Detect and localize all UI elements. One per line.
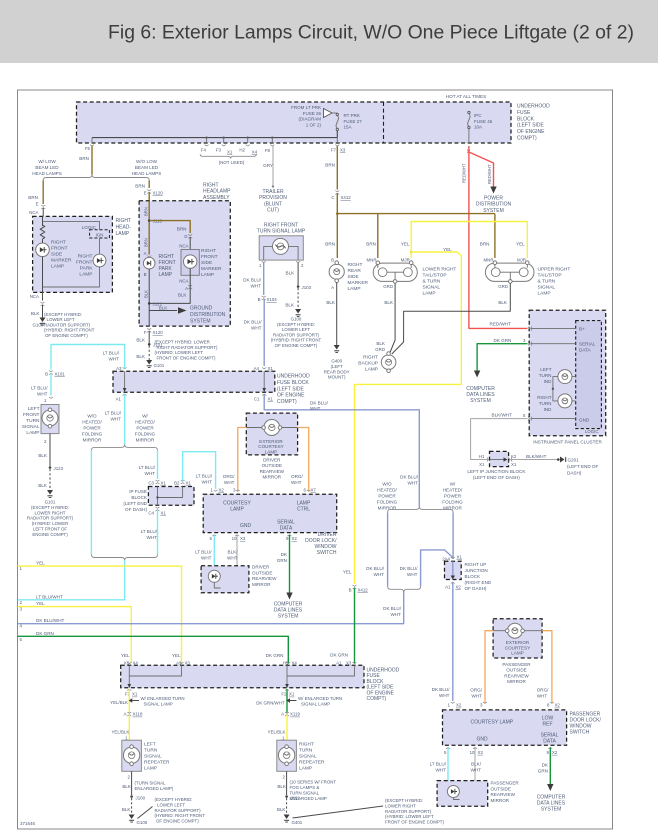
svg-text:DK GRN: DK GRN — [266, 653, 284, 658]
svg-text:DK GRN: DK GRN — [494, 338, 512, 343]
brace mirror option split (right) — [388, 507, 454, 513]
svg-text:F2: F2 — [281, 692, 287, 697]
svg-text:B: B — [331, 258, 334, 263]
svg-text:BRN: BRN — [79, 156, 89, 161]
brace mirror option merge (right) — [388, 586, 421, 592]
junction J115 — [148, 219, 151, 222]
wire side marker to J121 — [149, 268, 190, 303]
dashed wire to G101 — [148, 346, 150, 361]
left IP junction block — [490, 451, 509, 466]
internal ground bus — [42, 257, 44, 287]
pin A1 X3 — [353, 662, 357, 663]
connector J below headlamp — [41, 302, 45, 306]
pin H5 X4 — [286, 662, 290, 663]
side marker sub box — [181, 250, 199, 276]
svg-text:X1: X1 — [186, 481, 192, 486]
wire black pin 2 to J103 — [297, 263, 299, 285]
svg-text:X2: X2 — [292, 536, 298, 541]
svg-text:Fig 6: Exterior Lamps Circuit,: Fig 6: Exterior Lamps Circuit, W/O One P… — [108, 22, 634, 44]
IGN logic boxlet — [90, 230, 110, 238]
svg-text:G101: G101 — [154, 363, 165, 368]
right front park lamp (LED) — [93, 254, 106, 267]
svg-text:A: A — [281, 712, 284, 717]
svg-text:GRY: GRY — [263, 163, 273, 168]
svg-text:LOWREF: LOWREF — [542, 716, 554, 728]
wire slate junction block down to passenger courtesy — [452, 582, 454, 701]
indicator bracket wires — [553, 377, 576, 401]
svg-text:BRN: BRN — [325, 242, 335, 247]
connector courtesy pin 1 — [214, 490, 218, 491]
pin 3 passenger — [483, 702, 487, 703]
svg-text:X412: X412 — [358, 588, 369, 593]
svg-text:NCA: NCA — [29, 210, 38, 215]
svg-text:BRN: BRN — [135, 184, 145, 189]
wire park lamp down — [148, 269, 150, 326]
wire cyan X101 to lamp — [50, 373, 52, 395]
pin 5 passenger — [446, 747, 450, 748]
pin 10 X3 — [235, 535, 239, 536]
svg-text:YEL: YEL — [36, 601, 45, 606]
svg-text:B: B — [349, 588, 352, 593]
connector X101 — [49, 371, 53, 375]
pin K5 X4 — [127, 662, 131, 663]
trailer provision wire — [272, 146, 274, 186]
pin stubs bus1 — [92, 138, 337, 143]
svg-text:371646: 371646 — [20, 821, 36, 826]
connector X118 — [127, 712, 131, 716]
IPC logic sub box — [576, 321, 602, 429]
svg-text:X412: X412 — [341, 195, 352, 200]
wire black marker to G400 — [336, 283, 338, 346]
brace mirror option split (left) — [91, 445, 157, 451]
brace headlamp option split — [43, 174, 149, 180]
svg-text:X104: X104 — [267, 297, 278, 302]
svg-text:LAMPCTRL: LAMPCTRL — [297, 501, 311, 513]
ground G201 (sideways) — [557, 458, 560, 461]
wire gray pin10 to mirror — [221, 535, 238, 588]
svg-text:G201: G201 — [568, 458, 580, 463]
svg-text:A3: A3 — [116, 366, 122, 371]
svg-text:B+: B+ — [579, 326, 585, 331]
svg-text:X1: X1 — [511, 462, 517, 467]
svg-text:SIGNAL LAMP: SIGNAL LAMP — [301, 702, 330, 707]
internal brown wire — [148, 201, 150, 255]
pin A2 X3 — [180, 662, 184, 663]
svg-text:J100: J100 — [136, 796, 146, 801]
passenger outside rearview mirror box — [437, 781, 488, 807]
wire orange right — [298, 428, 309, 492]
dashed wire to G100 — [131, 798, 133, 815]
svg-text:X1: X1 — [132, 692, 138, 697]
svg-text:BLK: BLK — [136, 354, 146, 359]
pin connectors bus1 bottom — [90, 145, 339, 146]
wire triangle to fuse 27 — [332, 112, 337, 114]
right backup lamp — [381, 355, 396, 370]
svg-text:ORG/WHT: ORG/WHT — [470, 688, 482, 699]
svg-text:MJR: MJR — [517, 258, 526, 263]
svg-text:A1: A1 — [445, 585, 451, 590]
svg-text:BLK: BLK — [277, 807, 287, 812]
wire slate from pin 1 — [263, 263, 265, 295]
fuse RT PRK 27 — [336, 113, 338, 115]
svg-text:X3: X3 — [478, 750, 484, 755]
pin 9 X2 — [288, 535, 292, 536]
instrument panel cluster box — [529, 310, 606, 435]
svg-text:X3: X3 — [346, 660, 352, 665]
svg-text:LOGIC: LOGIC — [585, 429, 599, 434]
svg-text:YEL: YEL — [516, 242, 525, 247]
pin 1 — [262, 261, 266, 262]
svg-text:BLK: BLK — [384, 300, 394, 305]
svg-text:RED/WHT: RED/WHT — [487, 164, 492, 184]
svg-text:YEL: YEL — [36, 561, 45, 566]
pin B2 — [181, 480, 185, 484]
right headlamp (dashed box, w/ low beam) — [33, 216, 113, 292]
IP fuse block — [148, 487, 194, 506]
wire orange left (passenger) — [485, 631, 493, 703]
wire cyan A3 to X101 — [51, 345, 125, 370]
courtesy pin 6 — [307, 490, 311, 491]
svg-text:X118: X118 — [133, 712, 143, 717]
svg-text:DK BLU/WHT: DK BLU/WHT — [36, 618, 65, 623]
connector X104 — [262, 296, 266, 300]
driver outside rearview mirror box — [201, 566, 249, 593]
svg-text:H1: H1 — [479, 454, 485, 459]
svg-text:A: A — [185, 286, 188, 291]
wire yellow X118 to repeater — [128, 715, 130, 741]
wire black lamp3 GRD to backup lamp — [392, 283, 511, 354]
ground G100 (repeater) — [129, 815, 135, 820]
junction J123 — [49, 466, 52, 469]
svg-text:A: A — [144, 251, 147, 256]
side marker lamp LED — [184, 255, 197, 268]
wire green F2 to X119 — [286, 689, 288, 712]
upper right tail/stop lamp — [485, 263, 534, 281]
svg-text:BLK: BLK — [136, 338, 146, 343]
connector X120 bottom — [147, 328, 151, 332]
wire black lamp to J123 — [49, 434, 51, 466]
svg-text:F3: F3 — [216, 148, 222, 153]
enlarged turn arrow left — [129, 698, 133, 702]
svg-text:YEL: YEL — [343, 570, 352, 575]
wire internal B+ — [531, 327, 576, 329]
wire black to J100 — [131, 771, 133, 795]
svg-text:J123: J123 — [54, 466, 64, 471]
svg-text:G100: G100 — [33, 323, 44, 328]
yellow branch to rear lamps feed — [355, 252, 462, 584]
svg-text:NCA: NCA — [30, 294, 39, 299]
svg-text:C3: C3 — [148, 481, 154, 486]
svg-text:G101(EXCEPT HYBRID:LOWER RIGHT: G101(EXCEPT HYBRID:LOWER RIGHTRADIATOR S… — [27, 500, 74, 537]
mirror symbol — [208, 570, 220, 582]
wire slate C1 to mirror option split — [264, 394, 419, 506]
connector GND pin 5 — [528, 417, 532, 421]
border line 5 green — [18, 636, 289, 663]
wire brown F5 down — [91, 146, 93, 174]
svg-text:BRN: BRN — [480, 242, 490, 247]
junction yellow — [410, 251, 413, 254]
lower right tail/stop lamp — [373, 263, 417, 281]
svg-text:LT BLU/WHT: LT BLU/WHT — [36, 594, 63, 599]
underhood fuse block bus (top) — [77, 102, 512, 143]
svg-text:BLK: BLK — [38, 453, 48, 458]
svg-text:X4: X4 — [292, 660, 298, 665]
dashed wire to G101 — [49, 469, 51, 490]
wire cyan A1 down — [124, 394, 126, 444]
svg-text:GND: GND — [476, 737, 488, 743]
driver exterior courtesy lamp box — [246, 413, 297, 455]
svg-text:A2: A2 — [176, 660, 182, 665]
svg-text:X1: X1 — [161, 511, 167, 516]
connector H1 — [487, 458, 491, 462]
svg-text:NCA: NCA — [179, 244, 188, 249]
svg-text:(LEFT END OF DASH): (LEFT END OF DASH) — [473, 475, 520, 480]
svg-text:MJR: MJR — [401, 258, 410, 263]
brown branch to side marker — [149, 221, 190, 233]
connector X412 (B) lower — [353, 585, 357, 589]
svg-text:BLK: BLK — [286, 271, 296, 276]
svg-text:X3: X3 — [340, 148, 346, 153]
svg-text:BLK/WHT: BLK/WHT — [526, 454, 547, 459]
bus junction dots — [206, 137, 208, 139]
pin 5 — [212, 535, 216, 536]
right rear side marker lamp — [329, 264, 344, 279]
svg-text:X7: X7 — [311, 488, 317, 493]
internal logic branch wire — [43, 221, 100, 230]
svg-text:C: C — [331, 195, 334, 200]
border line 3 yellow — [18, 607, 132, 664]
wire brown F7 down — [336, 146, 338, 190]
svg-text:X1: X1 — [268, 366, 274, 371]
left turn indicator — [558, 370, 572, 384]
wire to J101 — [148, 331, 150, 343]
wire cyan w/ heated leg to C3 — [157, 450, 159, 479]
wire cyan w/o heated leg — [90, 450, 92, 554]
wire slate w/o heated leg (right) — [387, 512, 389, 586]
svg-text:B: B — [258, 297, 261, 302]
svg-text:YEL/BLK: YEL/BLK — [268, 730, 286, 735]
svg-text:X1: X1 — [161, 481, 167, 486]
brown tail bus — [337, 214, 495, 258]
svg-text:10: 10 — [470, 750, 475, 755]
svg-text:YEL/BLK: YEL/BLK — [111, 730, 129, 735]
right front park lamp (assembly) — [143, 257, 155, 269]
svg-text:G100(EXCEPT HYBRID:LOWER LEFTR: G100(EXCEPT HYBRID:LOWER LEFTRADIATOR SU… — [271, 317, 322, 349]
svg-text:BLK/WHT: BLK/WHT — [227, 550, 238, 561]
right up junction block — [451, 557, 455, 558]
wire green pin9 serial data — [289, 535, 291, 593]
svg-text:2A4: 2A4 — [442, 557, 450, 562]
pin C1 — [262, 394, 266, 395]
svg-text:X2: X2 — [219, 488, 225, 493]
svg-text:B: B — [144, 272, 147, 277]
svg-text:B2: B2 — [174, 481, 180, 486]
svg-text:BRN: BRN — [28, 195, 38, 200]
fuse block internal divider — [383, 102, 385, 143]
arrow power distribution — [490, 187, 496, 194]
svg-text:GRD: GRD — [375, 347, 385, 352]
connector X120 — [147, 190, 151, 194]
wire internal gnd — [531, 418, 576, 420]
wire yellow X119 to right repeater — [286, 715, 288, 741]
enlarged turn arrow right — [286, 698, 290, 702]
border line 4 slate — [18, 591, 404, 624]
svg-text:W/ ENLARGED TURN: W/ ENLARGED TURN — [141, 696, 185, 701]
leader line left note — [138, 807, 153, 819]
svg-text:GRD: GRD — [498, 284, 508, 289]
yellow tail bus — [411, 222, 527, 259]
svg-text:BLK: BLK — [159, 306, 169, 311]
svg-text:X4: X4 — [133, 660, 139, 665]
wire brown right branch — [148, 181, 150, 189]
wire gray BLK/WHT gnd — [471, 419, 528, 460]
ground G400 — [334, 345, 340, 350]
svg-text:GND: GND — [579, 417, 590, 422]
svg-text:BLK/WHT: BLK/WHT — [471, 762, 482, 773]
svg-text:YEL: YEL — [172, 653, 181, 658]
svg-text:DK GRN: DK GRN — [36, 631, 54, 636]
wire brown left branch — [42, 181, 44, 205]
junction brown tail bus — [336, 212, 339, 215]
svg-text:X4: X4 — [252, 150, 258, 155]
svg-text:GND: GND — [240, 523, 252, 529]
svg-text:RED/WHT: RED/WHT — [462, 163, 467, 183]
connector X119 — [285, 712, 289, 716]
connector B+ — [528, 326, 532, 330]
svg-text:X1: X1 — [227, 150, 233, 155]
svg-text:K5: K5 — [124, 660, 130, 665]
junction J103 — [297, 285, 300, 288]
dashed wire to G100 — [297, 288, 299, 309]
right front side marker lamp (LED) — [36, 243, 50, 257]
svg-text:X1: X1 — [457, 555, 463, 560]
pin 10 X3 passenger — [473, 747, 477, 748]
connector K2 — [509, 458, 513, 462]
svg-text:RIGHTHEAD-LAMP: RIGHTHEAD-LAMP — [116, 218, 132, 237]
pin F2 — [285, 689, 289, 690]
svg-text:F: F — [144, 330, 147, 335]
underhood fuse block bus 3 — [121, 665, 364, 688]
svg-text:BLK: BLK — [277, 784, 287, 789]
svg-text:BLK: BLK — [285, 303, 295, 308]
pin F1 — [127, 689, 131, 690]
pin A1 — [123, 394, 127, 395]
connector C3 — [156, 480, 160, 484]
svg-text:BRN: BRN — [177, 227, 187, 232]
wire black to J191 — [286, 771, 288, 795]
svg-text:YEL: YEL — [121, 653, 130, 658]
svg-text:YEL: YEL — [401, 242, 410, 247]
underhood fuse block bus 2 — [113, 371, 275, 392]
pin A4 — [262, 368, 266, 369]
svg-text:A4: A4 — [254, 366, 260, 371]
svg-text:INSTRUMENT PANEL CLUSTER: INSTRUMENT PANEL CLUSTER — [533, 440, 602, 445]
svg-text:LEFT IP JUNCTION BLOCK: LEFT IP JUNCTION BLOCK — [467, 469, 526, 474]
ground G101 — [146, 360, 152, 365]
svg-text:X2: X2 — [456, 585, 462, 590]
wire yellow F1 to X118 — [128, 689, 130, 712]
svg-text:YEL/BLK: YEL/BLK — [110, 700, 128, 705]
svg-text:BRN: BRN — [325, 163, 335, 168]
svg-text:BLK: BLK — [326, 300, 336, 305]
right headlamp assembly (dashed box) — [139, 201, 230, 326]
wire slate w/ heated leg into junction block — [452, 512, 454, 559]
svg-text:ORG/WHT: ORG/WHT — [223, 474, 235, 485]
connector D — [188, 234, 192, 238]
output wire below box — [42, 287, 44, 301]
pin 1 X2 passenger courtesy — [451, 702, 455, 703]
internal wire to resistor — [42, 216, 44, 226]
passenger courtesy lamp box — [443, 710, 567, 745]
right turn indicator — [558, 394, 572, 408]
wire orange left — [238, 428, 247, 492]
svg-text:BLK: BLK — [144, 290, 149, 298]
svg-text:HOT AT ALL TIMES: HOT AT ALL TIMES — [446, 94, 486, 99]
wire brown into assembly — [148, 193, 150, 201]
right turn signal repeater lamp — [277, 740, 297, 771]
svg-text:F4: F4 — [201, 148, 207, 153]
svg-text:X3: X3 — [240, 536, 246, 541]
wire into side marker — [189, 237, 191, 255]
junction J100 — [130, 795, 133, 798]
pin C4 — [156, 507, 160, 511]
IP fuse block internals — [158, 487, 183, 506]
svg-text:X1: X1 — [479, 462, 485, 467]
svg-text:BRN: BRN — [144, 207, 149, 216]
junction J191 — [285, 795, 288, 798]
svg-text:BLK/WHT: BLK/WHT — [492, 413, 513, 418]
bus3 internals — [129, 665, 354, 685]
svg-text:BLK: BLK — [31, 311, 41, 316]
svg-text:X1: X1 — [289, 692, 295, 697]
svg-text:F5: F5 — [85, 146, 91, 151]
svg-text:A: A — [331, 285, 334, 290]
svg-text:DASH): DASH) — [567, 470, 582, 475]
left turn signal repeater lamp — [122, 740, 142, 771]
svg-text:D: D — [184, 234, 187, 239]
svg-text:DK GRN/WHT: DK GRN/WHT — [256, 700, 285, 705]
svg-text:BLK: BLK — [122, 807, 132, 812]
svg-text:B: B — [45, 372, 48, 377]
wire cyan C4 down — [157, 510, 159, 555]
svg-text:(NOT USED): (NOT USED) — [219, 160, 245, 165]
dashed wire to G401 — [286, 798, 288, 815]
svg-text:E: E — [144, 191, 147, 196]
svg-text:BLK: BLK — [498, 300, 508, 305]
internal lamp wires — [264, 246, 298, 260]
tap wire to merge brace — [421, 550, 453, 586]
svg-text:BLK: BLK — [122, 784, 132, 789]
wire slate to bus2 A4 — [263, 299, 265, 366]
pin 2 — [296, 261, 300, 262]
brace not-used group — [200, 154, 256, 158]
connector A park — [147, 256, 151, 257]
svg-text:LOGIC: LOGIC — [82, 225, 97, 230]
svg-text:H2: H2 — [239, 148, 245, 153]
IPC fuse 46 — [468, 111, 470, 113]
pin 8 X2 passenger — [550, 702, 554, 703]
wire green X412 to bus3 A1 — [354, 588, 356, 664]
svg-text:X3: X3 — [185, 660, 191, 665]
wire black into headlamp — [42, 208, 44, 217]
svg-text:W/O LOWBEAM LEDHEAD LAMPS: W/O LOWBEAM LEDHEAD LAMPS — [132, 159, 162, 176]
svg-text:K2: K2 — [511, 454, 517, 459]
connector X412 — [335, 191, 339, 195]
wire cyan B2 to courtesy pin1 — [183, 452, 216, 489]
svg-text:GRD: GRD — [383, 284, 393, 289]
wire orange right (passenger) — [542, 631, 552, 703]
connector E — [41, 205, 45, 209]
